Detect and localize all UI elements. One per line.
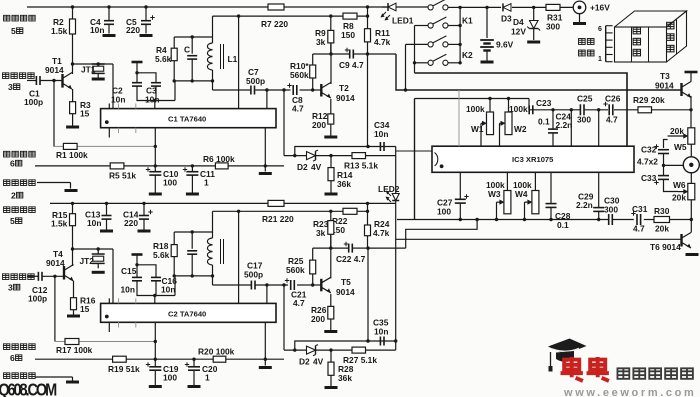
transistor T1 [45,56,72,89]
wire: C35 net [295,341,396,350]
svg-text:560k: 560k [286,265,305,275]
svg-text:4.7: 4.7 [292,104,304,114]
svg-text:500p: 500p [246,76,265,86]
transistor T6 [650,233,691,253]
svg-text:500p: 500p [244,270,263,280]
svg-text:JT1: JT1 [81,65,96,75]
capacitor C28 [546,172,571,230]
resistor R26 [311,294,334,330]
wire: IC3 top pins [571,110,598,146]
svg-text:100: 100 [163,373,177,383]
svg-text:R17 100k: R17 100k [56,345,93,355]
svg-text:1: 1 [598,56,602,63]
wire: C2C3 node to C1 pin [155,81,175,109]
node label 至调频头 3脚 [3,73,35,92]
wire: C9 net [313,52,396,55]
svg-text:K1: K1 [462,16,473,26]
svg-text:4.7: 4.7 [606,115,618,125]
svg-text:C25: C25 [577,94,593,104]
wire: to D2 net [283,90,285,156]
transistor T2 [321,83,355,104]
wire: rail to +16V [460,6,573,9]
svg-text:R19 51k: R19 51k [108,364,140,374]
wire: L2 top feed [212,211,214,238]
resistor R9 [315,16,334,54]
ground (JT2) [92,271,105,274]
resistor R17 [56,339,93,356]
svg-text:1.5k: 1.5k [51,26,68,36]
node label 至调频头 5脚 [4,15,36,36]
label K2 [462,50,473,60]
svg-text:C32: C32 [641,145,657,155]
wire: switch right bus [448,6,462,65]
ground (R12) [324,136,337,139]
ground (C11) [186,193,199,196]
resistor R1 [56,143,88,160]
wire: R23/T5 collector [330,234,332,278]
svg-text:3k: 3k [316,228,326,238]
wire: C2 gnd pin [264,322,266,365]
capacitor C15 [121,265,155,296]
wire: +V rail bottom [50,202,396,205]
wire: L1 bottom [211,70,214,90]
wire: T3 emitter to W5 [690,96,692,128]
ground (T6) [686,253,699,256]
capacitor C (osc2) [187,232,197,276]
ground (R26) [324,330,337,333]
capacitor C2 top bar [132,62,143,75]
wire: line B2 [213,203,370,213]
wire: W1W2 top line [415,97,530,110]
resistor R29 [633,95,665,113]
ground (C14) [138,230,151,233]
IC C2 pins [109,211,238,332]
wire: R9/T2 collector [330,43,332,84]
watermark cap icon [548,339,587,372]
svg-text:LED2: LED2 [378,184,400,194]
resistor R20 [198,347,235,363]
capacitor C19 [146,359,179,385]
capacitor C26 [603,94,620,125]
svg-text:C31: C31 [632,204,648,214]
watermark 电子下载站 [617,368,692,378]
wire: T6 collector [690,220,692,233]
svg-text:6: 6 [10,353,15,363]
wire: JT2 net [73,247,114,303]
wire: R4/C top [174,35,212,38]
transistor T3 [655,71,691,98]
svg-text:5.6k: 5.6k [155,54,172,64]
led LED2 [378,147,400,204]
capacitor C13 [85,203,112,229]
resistor R10 [290,54,316,92]
wire: D2b net [284,348,396,351]
ground (R3) [66,126,79,129]
svg-text:K2: K2 [462,50,473,60]
wire: W5 wiper to C32 [664,140,668,149]
wire: JT1 net [73,62,114,108]
capacitor C8 [287,83,304,113]
resistor R8 [341,13,357,40]
capacitor C22 [336,242,366,264]
watermark 虫虫 [561,357,609,381]
svg-text:W1: W1 [471,124,484,134]
svg-text:9014: 9014 [655,81,674,91]
watermark url [563,387,696,397]
label K1 [462,16,473,26]
svg-text:10n: 10n [90,25,104,35]
capacitor C10 [146,166,179,193]
transistor T5 [321,277,355,297]
wire: pin2 gnd (2) [35,377,73,381]
capacitor C29 [576,172,604,219]
ground (C4) [103,34,116,37]
IC U3 IC3 XR1075 [432,146,634,172]
crystal JT1 [81,64,105,78]
wire: R18/C/L2 bottom [173,274,213,277]
wire: IC3 left stub [396,150,432,152]
wire: L2 bottom [211,265,214,285]
svg-text:R1 100k: R1 100k [56,150,88,160]
svg-text:R21 220: R21 220 [262,214,294,224]
battery 9.6V [480,7,513,60]
wire: C17/C21 net [213,283,313,286]
capacitor C30 [604,196,620,226]
wire: R15 to T4 collector [71,226,74,266]
wire: R4/C/L1 bottom [173,79,213,82]
capacitor C2 [111,73,155,105]
svg-text:C33: C33 [641,173,657,183]
svg-text:2: 2 [11,191,16,201]
wire: C15C16 node to C2 pin [155,276,175,304]
ground (C10) [149,193,162,196]
led LED1 [381,3,429,26]
potentiometer W2 [500,99,528,147]
ground (C13) [100,230,113,233]
svg-text:20k: 20k [672,193,686,203]
wire: line B [213,7,370,18]
transistor T4 [46,249,74,281]
svg-text:4.7x2: 4.7x2 [637,157,658,167]
svg-text:9014: 9014 [336,287,355,297]
switch K1b [428,17,448,28]
inductor L1 [207,43,237,70]
svg-text:C9 4.7: C9 4.7 [339,60,364,70]
node label 至调频头 5脚 (2) [4,207,36,226]
svg-text:220: 220 [124,218,138,228]
resistor R31 [546,4,563,31]
svg-text:10n: 10n [121,285,135,295]
svg-text:9.6V: 9.6V [496,40,514,50]
svg-text:Q608.COM: Q608.COM [0,380,57,397]
svg-text:W4: W4 [515,189,528,199]
svg-text:200: 200 [312,120,326,130]
wire: C7/C8 net [213,88,313,91]
resistor R27 [343,347,377,365]
wire: R24 node down [366,248,369,343]
switch K2b [428,54,448,65]
resistor R6 [203,154,235,169]
svg-text:100p: 100p [28,294,47,304]
diode D3 [501,3,512,23]
capacitor C3 [137,73,161,105]
resistor R22 [331,208,357,235]
svg-text:IC3 XR1075: IC3 XR1075 [512,155,554,164]
svg-text:1: 1 [205,373,210,383]
capacitor C35 [373,318,389,346]
svg-text:9014: 9014 [45,65,64,75]
zener D2b [299,345,324,367]
svg-text:36k: 36k [338,373,352,383]
svg-text:6: 6 [598,26,602,33]
wire: R1 net (gray) [53,145,155,147]
node label 至调频头 6脚 [4,151,36,168]
resistor R16 [71,281,96,315]
svg-text:D3: D3 [501,14,512,24]
svg-text:R5 51k: R5 51k [109,171,136,181]
resistor R2 [51,7,76,36]
svg-text:10n: 10n [374,327,388,337]
resistor R24 [365,211,390,248]
capacitor C32 [637,144,669,167]
resistor R23 [313,211,334,248]
svg-text:560k: 560k [290,70,309,80]
wire: LED2 to bottom nets [394,203,397,350]
wire: T1 base to R1 [53,81,55,147]
svg-text:1.5k: 1.5k [51,219,68,229]
resistor R4 [155,37,177,81]
wire: K2a to bus Q [404,44,428,91]
capacitor C20 [185,359,218,385]
svg-text:+16V: +16V [590,3,610,13]
ground (D4) [527,41,540,44]
inductor L2 [207,238,223,265]
resistor R28 [328,350,354,386]
svg-text:4V: 4V [311,162,322,172]
wire: C34 net [295,145,396,156]
capacitor C (osc) [184,37,197,81]
wire: C1 pin through (x155) [154,128,157,166]
capacitor C14 [123,203,153,229]
jack +16V [573,1,610,22]
svg-text:2.2n: 2.2n [576,200,593,210]
svg-text:C22 4.7: C22 4.7 [336,254,366,264]
wire: C25 net [529,108,693,111]
zener D2 [297,150,322,172]
svg-text:100: 100 [163,178,177,188]
jack output [683,144,699,183]
capacitor C12 [27,272,64,304]
svg-text:300: 300 [577,115,591,125]
capacitor C25 [577,94,593,125]
svg-text:W2: W2 [514,124,527,134]
capacitor C11 [183,166,215,193]
switch K1a [428,0,448,10]
wire: staircase C22 to bus [406,220,477,249]
svg-text:15: 15 [80,109,90,119]
node label 至调频头 2脚 [4,180,36,201]
svg-text:10n: 10n [161,285,175,295]
capacitor C27 [437,172,469,219]
svg-text:C1 TA7640: C1 TA7640 [168,115,206,124]
wire: K1b/K2b to bus P [413,26,428,74]
capacitor C5 [126,7,155,35]
resistor R13 [344,153,378,171]
capacitor C1 [24,76,63,107]
ground (R16) [67,315,80,318]
svg-text:20k: 20k [655,224,669,234]
svg-text:4.7: 4.7 [293,298,305,308]
wire: bus Q [396,54,682,90]
wire: C32 to jack [664,164,684,166]
svg-text:R7 220: R7 220 [261,19,288,29]
tuner 3D box [615,11,687,62]
ground (R28) [325,386,338,389]
node label 至调频头 2脚 (2) [4,373,36,379]
svg-text:2.2n: 2.2n [556,120,573,130]
capacitor C34 [374,120,390,151]
wire: C2 pin through (x155) [154,322,157,359]
svg-text:T2: T2 [339,83,349,93]
potentiometer W6 [672,180,695,203]
capacitor C17 [244,261,263,290]
svg-text:W6: W6 [673,180,686,190]
svg-text:10n: 10n [87,218,101,228]
svg-text:W5: W5 [674,142,687,152]
resistor R14 [328,156,353,193]
wire: to D2b net [283,285,285,350]
svg-text:JT2: JT2 [80,256,95,266]
ground (C2 pin) [259,366,272,369]
wire: C1 pin (C7 node) [266,90,268,109]
potentiometer W4 [513,172,539,219]
wire: R5/R6 line [35,164,284,167]
svg-text:C26: C26 [605,94,621,104]
svg-text:5: 5 [10,216,15,226]
svg-text:T6 9014: T6 9014 [650,242,681,252]
capacitor C33 [641,165,678,191]
capacitor C4 [90,7,114,35]
wire: C1 gnd pin [264,128,266,172]
resistor R18 [153,232,177,276]
wire: C22 net [313,246,406,249]
svg-text:12V: 12V [511,27,526,37]
capacitor C21 [285,278,307,308]
resistor R12 [312,99,334,136]
node label 至调频头 6脚 (2) [4,344,36,363]
wire: LED2 line to T6 base [396,238,682,240]
potentiometer W5 [668,126,695,152]
wire: T3 collector +V bar [685,72,698,82]
resistor R15 [51,203,76,228]
capacitor C31 [631,204,647,234]
capacitor C9 [339,48,364,70]
svg-text:1: 1 [204,178,209,188]
svg-text:R6 100k: R6 100k [203,154,235,164]
svg-text:3: 3 [8,82,13,92]
wire: R17 net (gray) [55,341,155,343]
label 引出端子 [579,39,594,56]
svg-text:D2: D2 [297,162,308,172]
wire: R11 node down [367,54,369,147]
wire: R19/R20 line [35,358,284,361]
ground (C20) [188,385,201,388]
svg-text:www.eeworm.com: www.eeworm.com [563,387,696,397]
ground (pin2b) [66,381,79,384]
wire: T4 base to R17 [54,276,56,341]
ground (C1 pin) [259,172,272,175]
wire: R18/C top [174,230,212,233]
IC U2 C2 TA7640 [101,303,276,322]
svg-text:C15: C15 [121,266,137,276]
svg-text:20k: 20k [670,126,684,136]
svg-text:4.7k: 4.7k [373,228,390,238]
svg-text:0.1: 0.1 [538,117,550,127]
watermark Q608.COM [0,380,57,397]
svg-text:10n: 10n [145,95,159,105]
resistor R7 [261,4,288,29]
wire: T2 base [313,89,322,91]
wire: R2 to T1 collector [71,34,74,74]
svg-text:5: 5 [11,26,16,36]
connector comb [598,26,613,63]
wire: T5 base [313,284,322,286]
svg-text:100k: 100k [466,104,485,114]
ground (R14) [325,193,338,196]
ground (pin2) [65,189,78,192]
IC U1 C1 TA7640 [101,109,276,128]
potentiometer W3 [486,172,511,219]
svg-text:3: 3 [8,283,13,293]
ground (JT1) [92,78,105,81]
svg-text:3k: 3k [316,37,326,47]
svg-text:R30: R30 [654,206,670,216]
capacitor C15 top bar [132,255,143,267]
svg-text:5.6k: 5.6k [153,250,170,260]
svg-text:T5: T5 [341,277,351,287]
svg-text:100: 100 [437,207,451,217]
ground (C5) [140,34,153,37]
svg-text:100p: 100p [24,97,43,107]
wire: C2 pin (C17 node) [266,285,268,303]
capacitor C7 [246,67,265,95]
potentiometer W1 [466,99,494,147]
svg-text:300: 300 [546,22,560,32]
wire: D2 net [284,154,396,157]
wire: bus P [415,73,628,146]
crystal JT2 [80,249,105,268]
svg-text:4.7k: 4.7k [374,37,391,47]
switch K2a [428,36,448,47]
ground (battery) [481,61,494,64]
resistor R30 [654,206,670,234]
wire: W6 bottom to bus [690,200,693,221]
svg-text:LED1: LED1 [392,16,414,26]
svg-text:15: 15 [80,304,90,314]
svg-text:C: C [184,45,190,55]
svg-text:300: 300 [604,205,618,215]
svg-text:200: 200 [311,314,325,324]
wire: IC3 bottom bus [397,218,691,221]
svg-text:C23: C23 [536,98,552,108]
capacitor C16 [137,265,177,297]
svg-text:10n: 10n [111,95,125,105]
resistor R3 [70,89,91,126]
svg-text:D4: D4 [513,17,524,27]
svg-text:6: 6 [10,159,15,169]
resistor R19 [108,356,140,374]
svg-text:0.1: 0.1 [557,220,569,230]
